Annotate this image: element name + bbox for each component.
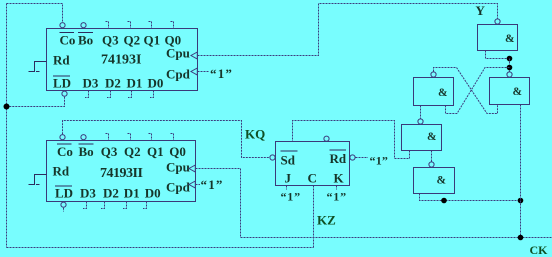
svg-text:Q3: Q3 (102, 33, 119, 48)
JK flip-flop U3 box (276, 142, 350, 186)
svg-text:Co: Co (60, 33, 76, 48)
wire KZ net: U2 Cpu to JK C (196, 169, 241, 238)
latch gate L box (414, 78, 454, 106)
svg-text:74193I: 74193I (101, 53, 141, 68)
latch gate R box (490, 78, 530, 105)
wire JK C pin down (313, 186, 315, 238)
svg-text:Q0: Q0 (169, 144, 186, 159)
pin bubble U2 Co (60, 135, 65, 140)
gate G1 output bubble (495, 19, 500, 24)
svg-text:74193II: 74193II (100, 166, 142, 181)
svg-text:Bo: Bo (79, 144, 94, 159)
pin bubble U1 LD (62, 91, 67, 96)
gate G4 input bubble (418, 119, 423, 124)
gate R output bubble (507, 72, 512, 77)
svg-text:Sd: Sd (281, 153, 296, 168)
junction dot CK rail right (518, 235, 524, 241)
pin arrow U1 Cpu (191, 52, 197, 59)
svg-text:D0: D0 (145, 186, 161, 201)
svg-text:&: & (505, 33, 515, 45)
svg-text:Cpd: Cpd (166, 180, 191, 195)
pin stub U1 D2 (107, 91, 111, 98)
svg-text:Rd: Rd (53, 53, 70, 68)
pin stub U3 K (336, 186, 338, 190)
pin bubble U3 Sd (270, 155, 275, 160)
pin stub U1 Q3 (106, 22, 109, 29)
junction dot latch cross (507, 65, 513, 71)
wire U1 Cpd to constant 1 (198, 71, 210, 73)
pin bubble U1 Co (60, 23, 65, 28)
junction dot G5-R input (518, 198, 524, 204)
label U2 Bo (79, 144, 94, 159)
pulse symbol U2 Rd input (29, 175, 47, 185)
svg-text:&: & (437, 175, 447, 187)
wire CK bottom rail right (241, 237, 552, 239)
svg-text:Q2: Q2 (124, 33, 141, 48)
label U1 Bo (78, 33, 93, 48)
pin stub U1 D1 (128, 91, 132, 98)
wire CK bottom rail riser (313, 238, 315, 248)
svg-text:Q1: Q1 (147, 144, 164, 159)
gate G4 box (402, 125, 442, 151)
gate L output bubble (431, 72, 436, 77)
svg-text:“1”: “1” (327, 190, 347, 204)
wire G4 input from JK flip-flop top (293, 121, 410, 159)
svg-text:C: C (308, 171, 317, 186)
gate G5 input bubble (429, 162, 434, 167)
wire U2 Cpd to constant 1 (196, 184, 201, 186)
wire KQ net: U2 Co to JK Sd (63, 121, 270, 158)
svg-text:&: & (438, 87, 448, 99)
svg-text:Bo: Bo (78, 33, 93, 48)
label U3 Rd (330, 150, 347, 166)
svg-text:D0: D0 (148, 76, 164, 91)
pin stub U2 D2 (101, 202, 105, 209)
pin arrow U2 Cpu (189, 165, 195, 172)
svg-text:Rd: Rd (53, 164, 70, 179)
wire gate G4 to gate G5 (431, 151, 433, 162)
wire Y net: U1 Cpu to NAND G1 output (198, 4, 498, 56)
wire G5 output to CK rail (420, 194, 521, 201)
svg-text:D2: D2 (105, 76, 121, 91)
pin arrow U2 Cpd (189, 181, 195, 188)
pin bubble U2 Bo (81, 135, 86, 140)
pin stub U2 D3 (83, 202, 87, 209)
svg-text:D3: D3 (83, 76, 99, 91)
svg-text:Rd: Rd (330, 151, 347, 166)
wire latch L output cross to R input (434, 68, 498, 114)
svg-text:Cpd: Cpd (166, 67, 191, 82)
junction dot G5 output (441, 198, 447, 204)
wire latch R output cross to L input (446, 68, 510, 114)
svg-text:Co: Co (57, 144, 73, 159)
svg-text:LD: LD (55, 186, 73, 201)
junction dot rail-LD (4, 104, 10, 110)
wire CK bottom rail left (7, 247, 314, 249)
svg-text:KQ: KQ (245, 127, 265, 142)
svg-text:Q1: Q1 (144, 33, 161, 48)
svg-text:“1”: “1” (370, 154, 389, 168)
label U2 Co (57, 144, 73, 159)
svg-text:KZ: KZ (317, 213, 336, 228)
svg-text:K: K (334, 171, 345, 186)
wire top net to U1 Co (7, 4, 63, 22)
label U2 LD (55, 186, 73, 201)
gate G5 box (414, 168, 455, 194)
pin stub U1 D0 (150, 91, 154, 98)
pin stub U1 Q0 (171, 22, 174, 29)
junction dot G1 input (507, 56, 513, 62)
wire CK left rail (6, 4, 8, 248)
svg-text:D1: D1 (124, 186, 140, 201)
pin bubble U3 Rd (350, 155, 355, 160)
NAND gate G1 box (478, 25, 518, 51)
svg-text:D3: D3 (80, 186, 96, 201)
svg-text:&: & (427, 131, 437, 143)
svg-text:Y: Y (476, 3, 486, 18)
label U1 LD (53, 76, 71, 91)
svg-text:J: J (285, 171, 292, 186)
pin stub U1 D3 (85, 91, 89, 98)
svg-text:Cpu: Cpu (166, 46, 190, 61)
counter U2 74193 II box (47, 141, 196, 202)
wire latch R output vertical (509, 59, 511, 72)
pin stub U3 J (286, 186, 288, 190)
pin bubble U1 Bo (81, 23, 86, 28)
wire latch L to gate G4 (420, 106, 422, 119)
pin stub U2 Q0 (171, 134, 174, 141)
wire U3 Rd to constant 1 (356, 157, 369, 159)
pin bubble U2 LD with stub (61, 202, 66, 211)
pin stub U2 D0 (143, 202, 147, 209)
svg-text:Q3: Q3 (101, 144, 118, 159)
wire G1 input from latch (486, 51, 510, 59)
wire latch R second input down to CK (520, 105, 522, 238)
svg-text:Q2: Q2 (124, 144, 141, 159)
svg-text:&: & (513, 86, 523, 98)
svg-text:D2: D2 (103, 186, 119, 201)
svg-text:LD: LD (53, 76, 71, 91)
svg-text:D1: D1 (127, 76, 143, 91)
svg-text:Cpu: Cpu (166, 160, 190, 175)
pin stub U2 Q1 (149, 134, 152, 141)
pin stub U1 Q2 (128, 22, 131, 29)
label U1 Co (60, 33, 76, 48)
label U3 Sd (281, 151, 298, 168)
pin stub U2 D1 (123, 202, 127, 209)
svg-text:“1”: “1” (281, 190, 301, 204)
svg-text:“1”: “1” (210, 66, 233, 81)
pin stub U2 Q3 (106, 134, 109, 141)
pulse symbol U1 Rd input (29, 62, 47, 72)
pin arrow U1 Cpd (191, 68, 197, 75)
wire U1 LD to rail (7, 97, 65, 107)
svg-text:CK: CK (530, 243, 549, 257)
pin stub U1 Q1 (149, 22, 152, 29)
pin stub U2 Q2 (128, 134, 131, 141)
counter U1 74193 I box (47, 29, 198, 91)
svg-text:“1”: “1” (201, 177, 224, 192)
pin bubble U3 top (324, 136, 329, 141)
